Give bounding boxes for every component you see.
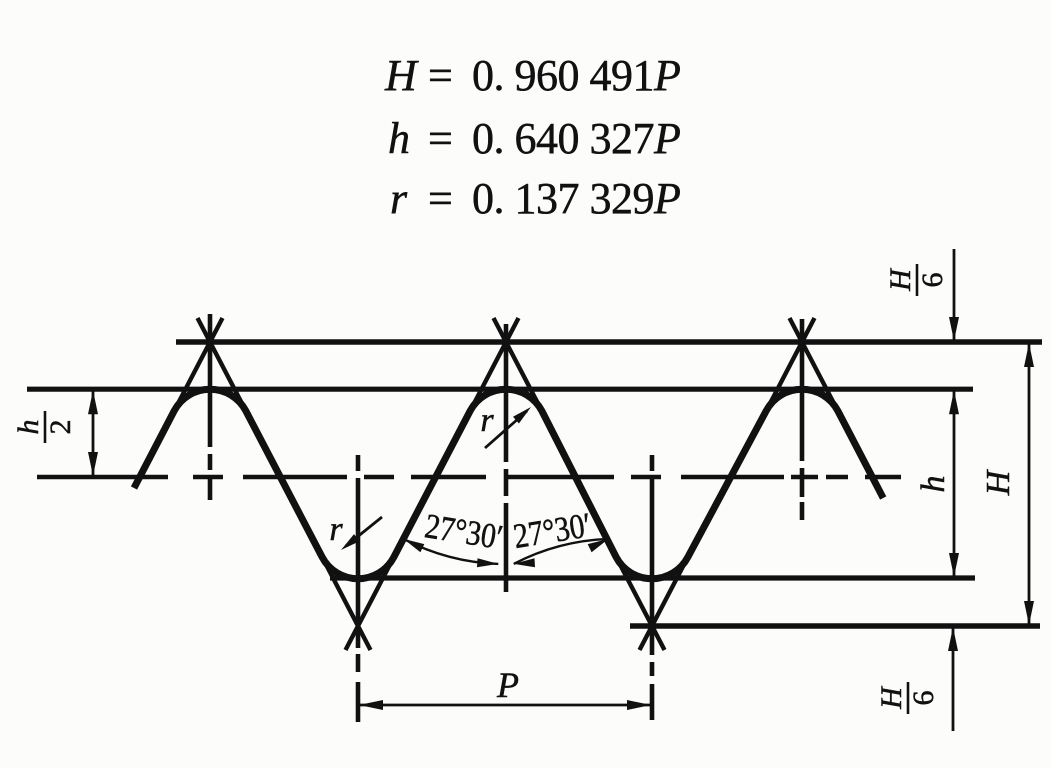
thread profile curve (134, 389, 883, 579)
crest line (rounded top level) (27, 387, 973, 392)
svg-text:H=0. 960 491P: H=0. 960 491P (384, 51, 681, 100)
root line (rounded bottom level) (330, 575, 975, 580)
svg-text:6: 6 (916, 273, 949, 288)
leader r at root 1 (346, 517, 382, 546)
svg-text:H: H (884, 267, 917, 292)
centre line of crest 3 (800, 319, 805, 461)
construction X above crest 1 (174, 318, 222, 411)
svg-text:6: 6 (907, 691, 940, 706)
centre line of root 1 (356, 455, 361, 471)
centre line of crest 1 (208, 314, 213, 447)
construction X below root 2 (616, 557, 664, 650)
leader r at crest 2 (485, 411, 527, 448)
svg-text:h: h (915, 476, 952, 493)
svg-text:H: H (980, 468, 1017, 496)
angle arc right 27deg30min (514, 539, 609, 564)
dimension h/2 arrow line (92, 391, 95, 475)
top sharp-crest reference line (176, 339, 1042, 345)
svg-text:P: P (496, 665, 519, 705)
svg-text:r: r (480, 402, 494, 439)
svg-text:H: H (875, 685, 908, 710)
pitch line (dash-dot centre line) (37, 475, 168, 480)
label H/6 bottom (875, 682, 940, 714)
svg-text:r: r (329, 511, 343, 548)
centre line of root 2 (650, 455, 655, 471)
svg-text:27°30′: 27°30′ (511, 505, 594, 556)
dimension H/6 bottom arrow line (952, 628, 955, 731)
construction X above crest 2 (470, 318, 518, 411)
svg-text:27°30′: 27°30′ (422, 506, 505, 557)
svg-text:h: h (12, 420, 45, 435)
svg-text:2: 2 (44, 420, 77, 435)
construction X above crest 3 (766, 318, 814, 411)
label H/6 top (884, 264, 949, 296)
construction X below root 1 (322, 557, 370, 650)
bottom sharp-root reference line (630, 623, 1040, 629)
centre line of crest 2 (504, 324, 509, 462)
dimension h arrow line (953, 391, 956, 576)
label h/2 (12, 411, 77, 443)
dimension P arrow line (360, 704, 650, 707)
svg-text:h=0. 640 327P: h=0. 640 327P (388, 114, 681, 163)
angle arc left 27deg30min (404, 539, 499, 564)
dimension H arrow line (1028, 344, 1031, 624)
svg-text:r=0. 137 329P: r=0. 137 329P (390, 174, 681, 223)
dimension H/6 top arrow line (953, 249, 956, 340)
